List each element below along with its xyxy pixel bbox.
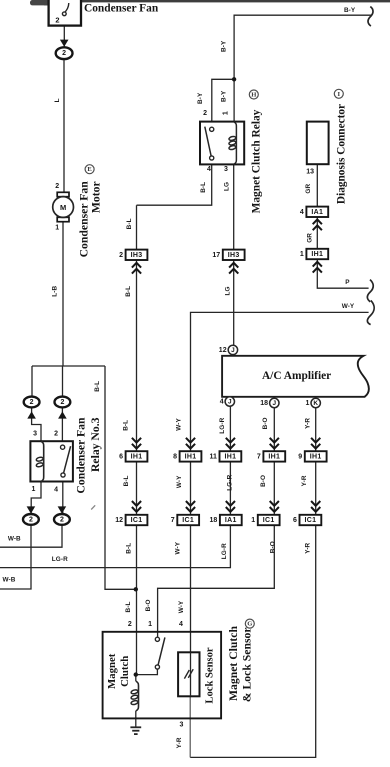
svg-text:2: 2 [54, 430, 58, 437]
svg-text:Condenser Fan: Condenser Fan [84, 2, 159, 14]
svg-text:13: 13 [306, 169, 314, 176]
svg-text:17: 17 [212, 252, 220, 259]
svg-text:K: K [313, 400, 318, 407]
svg-text:Condenser Fan: Condenser Fan [75, 417, 88, 494]
svg-text:Magnet Clutch Relay: Magnet Clutch Relay [251, 109, 263, 213]
svg-text:1: 1 [32, 486, 36, 493]
svg-text:6: 6 [119, 453, 123, 460]
svg-text:IH1: IH1 [311, 251, 323, 258]
svg-text:2: 2 [55, 15, 59, 24]
svg-text:W-Y: W-Y [176, 475, 183, 488]
svg-text:IC1: IC1 [305, 517, 317, 524]
svg-text:1: 1 [300, 251, 304, 258]
svg-text:IH3: IH3 [228, 252, 240, 259]
svg-text:LG-R: LG-R [221, 543, 228, 559]
svg-text:12: 12 [115, 517, 123, 524]
svg-text:Y-R: Y-R [176, 737, 183, 748]
svg-text:Motor: Motor [89, 181, 102, 213]
svg-text:B-L: B-L [200, 182, 207, 193]
svg-text:GR: GR [306, 233, 313, 243]
svg-text:18: 18 [260, 400, 268, 407]
svg-text:IA1: IA1 [311, 209, 323, 216]
svg-text:IH1: IH1 [225, 453, 237, 460]
svg-text:2: 2 [60, 399, 64, 406]
svg-text:B-L: B-L [122, 420, 129, 431]
svg-text:IC1: IC1 [263, 517, 275, 524]
svg-text:B-O: B-O [270, 541, 277, 553]
svg-text:2: 2 [62, 50, 66, 57]
svg-text:1: 1 [305, 400, 309, 407]
svg-text:W-Y: W-Y [175, 541, 182, 554]
svg-text:LG-R: LG-R [219, 417, 226, 433]
svg-text:1: 1 [222, 111, 229, 115]
svg-text:3: 3 [33, 431, 37, 438]
svg-text:B-L: B-L [125, 602, 132, 613]
svg-text:I: I [338, 91, 341, 98]
svg-text:L: L [54, 98, 61, 102]
svg-text:3: 3 [224, 166, 228, 173]
svg-text:W-B: W-B [8, 536, 21, 543]
svg-text:B-O: B-O [262, 417, 269, 429]
svg-text:12: 12 [219, 347, 227, 354]
svg-text:Relay No.3: Relay No.3 [89, 417, 102, 472]
svg-text:1: 1 [55, 224, 59, 231]
svg-text:6: 6 [293, 517, 297, 524]
svg-text:B-O: B-O [145, 599, 152, 611]
svg-text:2: 2 [30, 399, 34, 406]
svg-text:9: 9 [298, 453, 302, 460]
svg-text:B-L: B-L [126, 218, 133, 229]
svg-text:B-Y: B-Y [221, 40, 228, 52]
svg-text:7: 7 [171, 517, 175, 524]
svg-text:H: H [251, 92, 257, 99]
svg-text:B-L: B-L [125, 286, 132, 297]
svg-text:2: 2 [203, 110, 207, 117]
svg-text:2: 2 [119, 252, 123, 259]
svg-text:Diagnosis Connector: Diagnosis Connector [336, 104, 348, 204]
svg-text:7: 7 [257, 453, 261, 460]
svg-text:Clutch: Clutch [119, 656, 131, 687]
svg-text:1: 1 [251, 517, 255, 524]
svg-text:IH3: IH3 [131, 252, 143, 259]
svg-text:G: G [247, 621, 252, 628]
svg-text:2: 2 [55, 183, 59, 190]
svg-text:B-Y: B-Y [221, 90, 228, 102]
svg-text:4: 4 [54, 486, 58, 493]
svg-text:P: P [345, 279, 350, 286]
svg-text:18: 18 [210, 517, 218, 524]
svg-text:Magnet: Magnet [106, 653, 118, 689]
svg-text:4: 4 [179, 621, 183, 628]
svg-text:IH1: IH1 [185, 453, 197, 460]
svg-text:W-Y: W-Y [178, 600, 185, 613]
svg-text:2: 2 [128, 621, 132, 628]
svg-text:IH1: IH1 [131, 453, 143, 460]
svg-text:B-L: B-L [126, 543, 133, 554]
svg-text:J: J [231, 347, 235, 354]
svg-text:W-Y: W-Y [176, 417, 183, 430]
svg-text:B-L: B-L [94, 381, 101, 392]
svg-text:3: 3 [179, 721, 183, 728]
svg-text:B-O: B-O [260, 475, 267, 487]
svg-text:4: 4 [300, 209, 304, 216]
svg-text:IH1: IH1 [268, 453, 280, 460]
svg-text:Y-R: Y-R [301, 475, 308, 486]
svg-text:IC1: IC1 [131, 517, 143, 524]
svg-text:B-L: B-L [123, 475, 130, 486]
svg-text:A/C Amplifier: A/C Amplifier [262, 370, 331, 382]
svg-text:Y-R: Y-R [305, 542, 312, 553]
svg-text:M: M [60, 203, 66, 212]
svg-text:2: 2 [29, 516, 33, 523]
svg-text:LG-R: LG-R [52, 556, 68, 563]
svg-text:GR: GR [305, 184, 312, 194]
svg-text:E: E [87, 166, 92, 173]
svg-text:J: J [273, 400, 277, 407]
svg-text:IC1: IC1 [182, 517, 194, 524]
svg-text:B-Y: B-Y [344, 7, 356, 14]
svg-text:LG: LG [223, 182, 230, 191]
svg-text:W-B: W-B [3, 577, 16, 584]
svg-text:& Lock Sensor: & Lock Sensor [241, 627, 254, 702]
svg-text:Y-R: Y-R [305, 418, 312, 429]
svg-text:J: J [228, 398, 232, 405]
svg-text:IH1: IH1 [310, 453, 322, 460]
svg-text:4: 4 [207, 166, 211, 173]
svg-text:W-Y: W-Y [342, 303, 355, 310]
svg-text:LG-R: LG-R [226, 474, 233, 490]
svg-text:4: 4 [220, 398, 224, 405]
svg-text:1: 1 [148, 621, 152, 628]
svg-text:IA1: IA1 [225, 517, 237, 524]
svg-text:11: 11 [209, 453, 217, 460]
svg-text:Magnet Clutch: Magnet Clutch [227, 626, 240, 701]
svg-text:2: 2 [60, 516, 64, 523]
svg-text:L-B: L-B [52, 286, 59, 297]
svg-text:LG: LG [225, 286, 232, 295]
svg-text:Lock Sensor: Lock Sensor [204, 647, 215, 704]
svg-text:B-Y: B-Y [197, 92, 204, 104]
svg-text:8: 8 [173, 453, 177, 460]
